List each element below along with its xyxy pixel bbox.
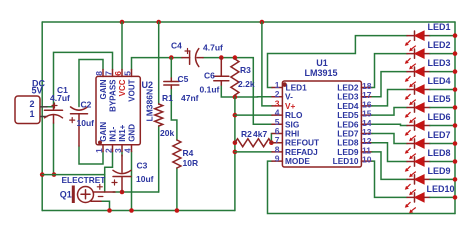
wire LED9 anode to bus — [430, 178, 455, 180]
wire U1 pin to LED10 — [372, 161, 407, 197]
op-amp U1 LM3915 body — [282, 81, 361, 167]
capacitor C3 — [112, 155, 131, 192]
svg-text:ELECTRET: ELECTRET — [62, 175, 106, 185]
wire R2 right to REFOUT and RHI — [270, 142, 273, 144]
wire C6 bottom to node — [221, 85, 235, 97]
svg-text:6: 6 — [113, 71, 123, 76]
svg-text:LM386N: LM386N — [145, 89, 155, 122]
wire U2 pin3 IN1+ to C3 — [121, 152, 123, 157]
junction dot U2 GND — [129, 208, 134, 213]
svg-text:9: 9 — [275, 154, 280, 164]
junction dot VOUT node at C5 — [169, 55, 174, 60]
junction dot LED10 bus — [453, 195, 458, 200]
svg-text:3: 3 — [113, 148, 123, 153]
junction dot LED5 bus — [453, 105, 458, 110]
wire U2 pin2 IN1- down — [105, 152, 113, 168]
svg-text:BYPASS: BYPASS — [109, 79, 118, 112]
wire U1 pin to LED3 — [372, 72, 407, 97]
svg-text:1: 1 — [29, 109, 34, 119]
svg-text:8: 8 — [94, 71, 104, 76]
junction dot LED6 bus — [453, 123, 458, 128]
pin 8 U1 left stub REFADJ — [272, 151, 282, 153]
wire U2 pin8 GAIN to C2 — [79, 60, 103, 107]
pin 1 U2 bottom stub — [102, 145, 104, 152]
wire LED2 anode to bus — [430, 53, 455, 55]
wire electret plus drop — [104, 167, 106, 192]
svg-text:IN1+: IN1+ — [118, 124, 127, 141]
junction dot electret plus C3 — [120, 190, 125, 195]
resistor R4 — [173, 140, 181, 168]
svg-text:GAIN: GAIN — [99, 122, 108, 142]
junction dot R2 right — [269, 140, 274, 145]
wire VCC top rail — [42, 21, 455, 23]
LED LED4 — [405, 85, 430, 106]
svg-text:10uf: 10uf — [77, 118, 95, 128]
junction dot R4 ground — [175, 208, 180, 213]
wire VCC through R1 column — [158, 22, 160, 104]
svg-text:C3: C3 — [137, 161, 148, 171]
wire U1 pin to LED4 — [372, 90, 407, 106]
wire C5 bottom to R4 top — [171, 89, 177, 141]
svg-text:0.1uf: 0.1uf — [200, 85, 220, 95]
svg-text:R1: R1 — [162, 93, 173, 103]
junction dot C1 bottom — [52, 172, 57, 177]
wire RLO tap to U1 pin4 — [235, 114, 272, 116]
wire LED6 anode to bus — [430, 125, 455, 127]
svg-text:LED6: LED6 — [428, 112, 451, 122]
pin 14 U1 right stub LED6 — [361, 123, 372, 125]
junction dot LED8 bus — [453, 159, 458, 164]
svg-text:C5: C5 — [178, 74, 189, 84]
wire VCC to U2 pin6 — [121, 22, 123, 70]
svg-text:LED7: LED7 — [428, 130, 451, 140]
svg-text:U2: U2 — [142, 80, 154, 90]
wire C4 output node to SIG — [203, 58, 272, 125]
junction dot node at R3 — [233, 55, 238, 60]
pin 12 U1 right stub LED8 — [361, 142, 372, 144]
transistor Q1 electret microphone — [72, 184, 115, 203]
junction dot R3 bottom — [233, 95, 238, 100]
svg-text:LED3: LED3 — [428, 58, 451, 68]
wire left supply vertical from rail to ground rail — [41, 22, 43, 211]
wire U2 VOUT to C4 — [132, 58, 183, 70]
junction dot LED1 bus — [453, 33, 458, 38]
junction dot electret minus ground — [107, 208, 112, 213]
svg-text:C6: C6 — [204, 71, 215, 81]
svg-text:VCC: VCC — [118, 79, 127, 96]
svg-text:4k7: 4k7 — [253, 129, 267, 139]
wire REFADJ tap to U1 pin8 — [235, 151, 272, 153]
junction dot VCC rail at U2 pin6 — [120, 20, 125, 25]
junction dot LED3 bus — [453, 69, 458, 74]
junction dot ground column — [40, 172, 45, 177]
svg-text:LED4: LED4 — [428, 76, 451, 86]
junction dot LED7 bus — [453, 141, 458, 146]
svg-text:MODE: MODE — [285, 156, 310, 166]
svg-text:4: 4 — [122, 148, 132, 153]
pin 3 U1 left stub V+ — [272, 105, 282, 107]
capacitor C1 — [45, 103, 63, 123]
svg-text:LED8: LED8 — [428, 148, 451, 158]
wire U1 pin to LED2 — [372, 54, 407, 88]
LED LED9 — [405, 175, 430, 196]
wire C1 bottom to ground column — [53, 123, 55, 175]
junction dot VCC rail at R1 — [156, 20, 161, 25]
pin 9 U1 left stub MODE — [272, 160, 282, 162]
pin 10 U1 right stub LED10 — [361, 160, 372, 162]
LED LED3 — [405, 67, 430, 88]
pin 1 marker dot U2 — [98, 141, 102, 145]
svg-text:LED9: LED9 — [428, 166, 451, 176]
svg-text:2: 2 — [103, 148, 113, 153]
junction dot RLO tap — [233, 113, 238, 118]
pin 1 U1 left stub LED1 — [272, 87, 282, 89]
pin 15 U1 right stub LED5 — [361, 114, 372, 116]
junction dot REFADJ tap — [233, 150, 238, 155]
wire LED8 anode to bus — [430, 161, 455, 163]
wire divider vertical to ground — [234, 97, 236, 211]
junction dot node at C6 — [219, 55, 224, 60]
svg-text:LED2: LED2 — [428, 40, 451, 50]
resistor R2 — [235, 139, 272, 147]
connector DC 5V — [15, 96, 40, 124]
svg-text:GAIN: GAIN — [99, 79, 108, 99]
LED LED6 — [405, 121, 430, 142]
pin 2 stub DC — [40, 106, 48, 108]
svg-text:20k: 20k — [160, 128, 174, 138]
wire LED5 anode to bus — [430, 107, 455, 109]
svg-text:2: 2 — [29, 99, 34, 109]
wire bottom right rail to MODE — [268, 161, 456, 213]
wire LED4 anode to bus — [430, 89, 455, 91]
pin 13 U1 right stub LED7 — [361, 133, 372, 135]
wire U1 pin to LED6 — [372, 124, 407, 125]
svg-text:LED10: LED10 — [427, 184, 455, 194]
svg-text:R2: R2 — [241, 129, 252, 139]
svg-text:LED10: LED10 — [333, 156, 359, 166]
pin 3 U2 bottom stub — [121, 145, 123, 152]
svg-text:GND: GND — [128, 124, 137, 142]
LED LED2 — [405, 49, 430, 70]
svg-text:4.7uf: 4.7uf — [50, 93, 70, 103]
wire U1 pin to LED7 — [372, 134, 407, 144]
wire U1 pin to LED5 — [372, 108, 407, 116]
LED LED1 — [405, 31, 430, 52]
svg-text:Q1: Q1 — [60, 190, 72, 200]
svg-text:4.7uf: 4.7uf — [203, 43, 223, 53]
op-amp U2 LM386N body — [96, 76, 140, 144]
wire R4 bottom to ground — [176, 168, 178, 211]
wire bottom ground rail — [42, 210, 235, 212]
LED LED8 — [405, 157, 430, 178]
junction dot R2 left — [233, 140, 238, 145]
svg-text:R4: R4 — [183, 148, 194, 158]
capacitor C6 — [214, 58, 229, 85]
pin 1 marker dot U1 — [282, 82, 287, 87]
wire R1 bottom to electret node — [158, 126, 160, 192]
LED LED5 — [405, 103, 430, 124]
svg-text:5V: 5V — [31, 85, 42, 95]
svg-text:2.2k: 2.2k — [238, 79, 255, 89]
wire U2 BYPASS to C1 — [54, 52, 113, 104]
junction dot VCC rail at U1 V+ — [260, 20, 265, 25]
wire DC pin2 to C1 top — [47, 106, 54, 108]
resistor R3 — [231, 59, 239, 95]
svg-text:LM3915: LM3915 — [304, 68, 337, 78]
LED LED10 — [405, 193, 430, 214]
wire U2 pin4 GND to ground rail — [131, 152, 133, 211]
svg-text:10: 10 — [362, 155, 372, 165]
pin 6 U2 top stub — [121, 70, 123, 77]
pin 4 U1 left stub RLO — [272, 114, 282, 116]
svg-text:10R: 10R — [183, 158, 199, 168]
wire electret plus node — [113, 191, 159, 193]
resistor R1 — [155, 104, 163, 126]
wire U2 pin1 GAIN to C2 bottom — [79, 146, 103, 164]
capacitor C5 — [164, 78, 179, 89]
wire right LED anode bus — [454, 22, 456, 214]
svg-text:10uf: 10uf — [136, 174, 154, 184]
pin 5 U2 top stub — [131, 70, 133, 77]
svg-text:47nf: 47nf — [181, 93, 199, 103]
wire LED10 anode to bus — [430, 196, 455, 198]
wire electret minus to ground — [101, 201, 110, 210]
svg-text:U1: U1 — [316, 58, 328, 68]
svg-text:LED5: LED5 — [428, 94, 451, 104]
svg-text:C4: C4 — [171, 40, 182, 50]
wire LED3 anode to bus — [430, 71, 455, 73]
pin 2 U1 left stub V- — [272, 96, 282, 98]
wire LED1 anode to bus — [430, 35, 455, 37]
pin 18 U1 right stub LED2 — [361, 87, 372, 89]
pin 17 U1 right stub LED3 — [361, 96, 372, 98]
pin 8 U2 top stub — [102, 70, 104, 77]
wire C5 top stub — [170, 58, 172, 78]
junction dot LED4 bus — [453, 87, 458, 92]
svg-text:1: 1 — [94, 148, 104, 153]
pin 5 U1 left stub SIG — [272, 123, 282, 125]
svg-text:5: 5 — [122, 71, 132, 76]
svg-text:LED1: LED1 — [428, 22, 451, 32]
pin 4 U2 bottom stub — [131, 145, 133, 152]
pin 7 U1 left stub REFOUT — [272, 142, 282, 144]
capacitor C2 — [70, 107, 88, 146]
pin 1 stub DC — [40, 116, 48, 118]
wire R3 bottom node to U1 V- — [235, 95, 272, 97]
capacitor C4 — [182, 49, 203, 67]
wire LED7 anode to bus — [430, 143, 455, 145]
pin 2 U2 bottom stub — [112, 145, 114, 152]
wire U1 pin to LED8 — [372, 143, 407, 162]
pin 16 U1 right stub LED4 — [361, 105, 372, 107]
wire U1 pin to LED9 — [372, 152, 407, 180]
svg-text:R3: R3 — [240, 65, 251, 75]
wire V+ drop to U1 pin3 — [262, 22, 272, 106]
wire bias rail segment — [42, 174, 104, 176]
svg-text:C2: C2 — [81, 100, 92, 110]
pin 11 U1 right stub LED9 — [361, 151, 372, 153]
pin 6 U1 left stub RHI — [272, 133, 282, 135]
LED LED7 — [405, 139, 430, 160]
pin 7 U2 top stub — [112, 70, 114, 77]
junction dot LED9 bus — [453, 177, 458, 182]
junction dot LED2 bus — [453, 51, 458, 56]
svg-text:7: 7 — [103, 71, 113, 76]
wire U1 pin1 to LED1 — [268, 36, 408, 88]
svg-text:IN1-: IN1- — [109, 126, 118, 141]
svg-text:VOUT: VOUT — [128, 79, 137, 101]
